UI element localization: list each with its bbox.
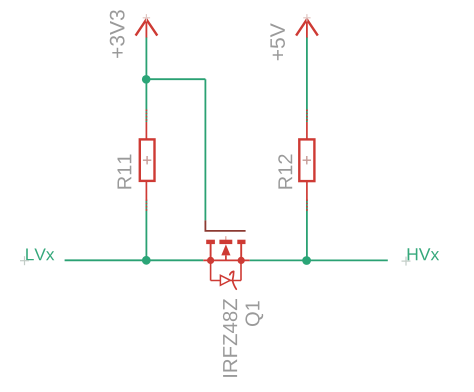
pin overlap dashes R11 bottom [145,200,147,212]
pin R12 pin 2 [306,181,308,199]
origin cross LVx [20,256,29,265]
junction node HVx/R12 [302,256,311,265]
label +5V [270,23,285,60]
junction node LVx/R11 [142,256,151,265]
transistor Q1 drain leg [240,244,242,260]
junction node drain [238,257,245,264]
net label HVx [408,248,440,260]
body diode bottom wire [211,280,241,282]
junction node +3V3/gate [142,75,151,84]
wire gate branch horizontal [146,78,205,80]
label R11 [118,155,132,189]
body diode zener cathode [230,271,237,289]
pin overlap dashes R12 bottom [306,200,308,212]
origin cross of +3V3 flag [143,14,150,21]
body diode triangle [220,275,230,285]
transistor Q1 drain stub [225,236,227,240]
resistor R12 [299,139,314,181]
label R12 [278,155,292,189]
wire pin segment S-D [203,259,249,261]
pin R11 pin 2 [145,181,147,200]
label IRFZ48Z [223,299,237,377]
origin cross R11 [143,156,151,164]
origin cross of +5V flag [303,14,310,21]
power flag +3V3 arrow [136,19,158,38]
wire gate branch vertical [204,79,206,220]
pin overlap dashes R11 top [145,110,147,123]
wire +3V3 rail lower [145,200,147,261]
transistor Q1 gate elbow [205,220,245,231]
transistor Q1 bulk tail [225,256,227,261]
origin cross HVx [402,257,411,266]
wire +3V3 rail upper [145,38,147,123]
origin cross R12 [303,156,311,164]
pin R11 pin 1 [145,122,147,140]
junction node source [207,257,214,264]
net label LVx [26,248,54,260]
pin R12 pin 1 [306,122,308,140]
transistor Q1 source leg [210,244,212,260]
transistor Q1 bulk arrow [221,244,230,255]
body diode left drop [210,260,212,280]
pin overlap dashes R12 top [306,110,308,123]
body diode right rise [240,260,242,280]
label Q1 [245,301,263,326]
power flag +5V arrow [296,19,318,38]
transistor Q1 channel bar middle [219,240,232,244]
transistor Q1 channel bar left [206,240,215,244]
resistor R11 [140,139,155,181]
label +3V3 [110,10,125,58]
transistor Q1 channel bar right [237,240,245,244]
wire HVx segment [250,259,388,261]
wire +5V rail lower [306,200,308,261]
wire +5V rail upper [306,38,308,123]
wire LVx segment [65,259,204,261]
